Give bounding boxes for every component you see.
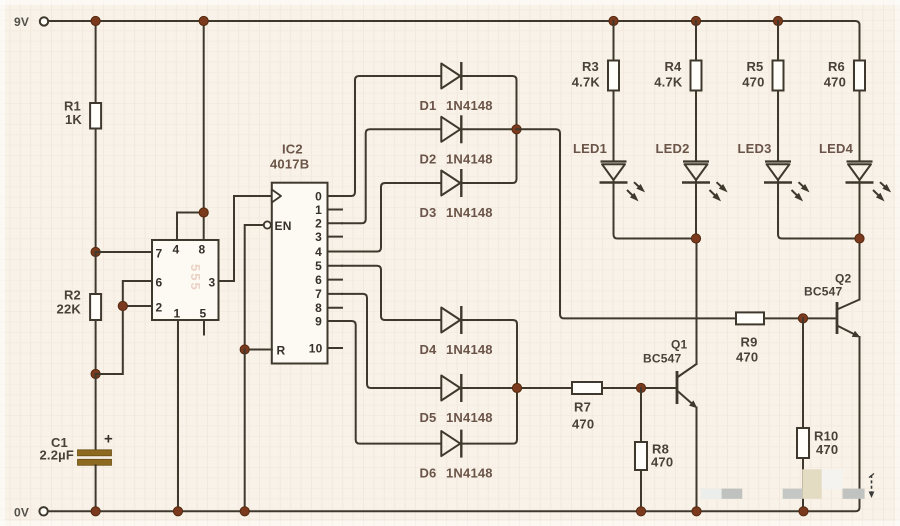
wire 555 pin 1 to 0V bbox=[177, 320, 179, 511]
svg-text:LED2: LED2 bbox=[655, 141, 689, 156]
svg-text:2: 2 bbox=[156, 301, 163, 315]
LED LED2 bbox=[682, 162, 728, 202]
svg-text:1N4148: 1N4148 bbox=[446, 466, 493, 481]
svg-text:IC2: IC2 bbox=[282, 142, 303, 157]
wire R9 to Q2 base bbox=[764, 317, 837, 319]
svg-text:470: 470 bbox=[736, 350, 758, 365]
wire R6 to LED4 bbox=[859, 91, 861, 162]
svg-text:R9: R9 bbox=[741, 335, 758, 350]
junction EN/R bbox=[240, 345, 249, 354]
wire output 0 to D1 bbox=[342, 76, 441, 196]
svg-text:4: 4 bbox=[315, 245, 322, 259]
junction 9V/R1 bbox=[91, 16, 100, 25]
wire Q2 emitter to 0V rail bbox=[859, 337, 861, 505]
wire R8 to 0V bbox=[640, 470, 642, 511]
wire node to 555 pin 2 bbox=[96, 306, 152, 374]
diode D4 bbox=[441, 306, 461, 334]
wire output 9 to D6 bbox=[342, 321, 441, 444]
transistor Q1 BC547 bbox=[677, 364, 697, 408]
wire R pin to node bbox=[245, 349, 272, 351]
diode D3 bbox=[441, 169, 461, 197]
wire R10 to 0V bbox=[802, 458, 804, 511]
resistor R2 bbox=[90, 294, 101, 320]
wire D4 cathode to node B bbox=[461, 320, 517, 388]
svg-text:470: 470 bbox=[651, 455, 673, 470]
svg-text:R3: R3 bbox=[582, 59, 599, 74]
op-amp U1 555 timer IC1 body bbox=[152, 240, 219, 320]
wire output 4 stub bbox=[328, 251, 343, 253]
junction pin1/0V bbox=[173, 507, 182, 516]
wire R4 to LED2 bbox=[695, 91, 697, 162]
wire 9V top rail bbox=[48, 21, 860, 61]
wire output 2 to D2 bbox=[342, 129, 441, 223]
svg-text:R6: R6 bbox=[828, 59, 845, 74]
junction R1/R2/pin7 bbox=[91, 247, 100, 256]
LED LED1 bbox=[600, 162, 646, 202]
svg-text:3: 3 bbox=[315, 230, 322, 244]
svg-text:LED4: LED4 bbox=[819, 141, 854, 156]
wire 555 pin 3 to 4017 clock bbox=[219, 196, 272, 281]
svg-text:R2: R2 bbox=[64, 288, 81, 303]
junction Q1e/0V bbox=[692, 507, 701, 516]
resistor R6 bbox=[854, 61, 865, 91]
svg-text:470: 470 bbox=[824, 75, 846, 90]
wire Q2 collector to LED node bbox=[859, 239, 861, 300]
svg-text:D2: D2 bbox=[419, 151, 436, 166]
svg-text:470: 470 bbox=[816, 442, 838, 457]
svg-text:LED1: LED1 bbox=[573, 141, 607, 156]
svg-text:9: 9 bbox=[315, 314, 322, 328]
wire R2 to node bbox=[95, 320, 97, 374]
junction EN-R/0V bbox=[240, 507, 249, 516]
svg-text:7: 7 bbox=[315, 287, 322, 301]
resistor R8 bbox=[635, 442, 647, 470]
svg-text:1N4148: 1N4148 bbox=[446, 98, 493, 113]
wire output 3 stub bbox=[328, 236, 343, 238]
wire output 5 to D4 bbox=[342, 266, 441, 320]
svg-text:D1: D1 bbox=[419, 98, 436, 113]
junction R8/0V bbox=[636, 507, 645, 516]
wire 0V bottom rail bbox=[48, 505, 860, 511]
wire LED2 to pair node bbox=[695, 183, 697, 239]
svg-text:R4: R4 bbox=[664, 59, 682, 74]
diode D5 bbox=[441, 374, 461, 402]
svg-text:470: 470 bbox=[572, 417, 594, 432]
watermark block group 2 bbox=[783, 469, 865, 499]
wire node to R10 bbox=[802, 318, 804, 428]
resistor R5 bbox=[773, 61, 784, 91]
junction pin2/pin6 bbox=[118, 301, 127, 310]
svg-text:0: 0 bbox=[315, 189, 322, 203]
svg-text:LED3: LED3 bbox=[737, 141, 771, 156]
wire D5 cathode to R7 bbox=[461, 387, 572, 389]
svg-text:R7: R7 bbox=[574, 400, 591, 415]
svg-text:Q1: Q1 bbox=[671, 338, 688, 352]
LED LED3 bbox=[764, 162, 810, 202]
svg-text:D4: D4 bbox=[419, 342, 437, 357]
wire 9V to R3 bbox=[613, 21, 615, 61]
svg-text:R5: R5 bbox=[746, 59, 763, 74]
junction C1/0V bbox=[91, 507, 100, 516]
wire node to R8 bbox=[640, 388, 642, 442]
wire output 7 to D5 bbox=[342, 294, 441, 388]
wire LED at x=778 down to pair node bbox=[778, 183, 857, 239]
svg-text:555: 555 bbox=[188, 264, 203, 292]
wire to 555 pin 7 bbox=[96, 251, 152, 253]
junction LED3/LED4 bbox=[855, 234, 864, 243]
junction 9V/555 supply bbox=[199, 16, 208, 25]
wire R7 to Q1 base bbox=[602, 387, 677, 389]
junction 9V/R4 bbox=[691, 16, 700, 25]
wire output 8 stub bbox=[328, 307, 343, 309]
clock input triangle of IC2 bbox=[272, 190, 281, 203]
wire R1 to node 555 pin7 bbox=[95, 129, 97, 253]
svg-text:6: 6 bbox=[315, 273, 322, 287]
svg-text:5: 5 bbox=[315, 259, 322, 273]
svg-text:0V: 0V bbox=[14, 506, 29, 520]
svg-text:D5: D5 bbox=[419, 410, 436, 425]
svg-text:3: 3 bbox=[209, 276, 216, 290]
wire EN to node bbox=[245, 225, 264, 350]
svg-text:D6: D6 bbox=[419, 466, 436, 481]
wire output 9 stub bbox=[328, 320, 343, 322]
dashed arrow mark bottom right bbox=[869, 474, 875, 499]
svg-text:7: 7 bbox=[156, 247, 163, 261]
svg-text:+: + bbox=[104, 431, 113, 448]
junction R9/R10/Q2 bbox=[798, 314, 807, 323]
wire D1 cathode to node A bbox=[461, 76, 516, 129]
wire D3 cathode to node A bbox=[461, 129, 516, 183]
svg-text:1: 1 bbox=[315, 203, 322, 217]
junction R7/R8/Q1 bbox=[636, 383, 645, 392]
watermark block group 1 bbox=[701, 489, 743, 499]
wire 555 pin 5 stub bbox=[203, 320, 205, 335]
resistor R3 bbox=[608, 61, 619, 91]
resistor R4 bbox=[691, 61, 702, 91]
wire node to R2 bbox=[95, 252, 97, 294]
resistor R1 bbox=[90, 103, 101, 129]
svg-text:1K: 1K bbox=[65, 112, 82, 127]
wire output 7 stub bbox=[328, 293, 343, 295]
svg-text:BC547: BC547 bbox=[804, 285, 842, 299]
svg-text:2.2µF: 2.2µF bbox=[39, 448, 74, 463]
wire output 0 stub bbox=[328, 195, 343, 197]
wire output 4 to D3 bbox=[342, 183, 441, 252]
enable bubble of IC2 bbox=[264, 221, 271, 228]
wire R5 to LED3 bbox=[777, 91, 779, 162]
wire EN-R node to 0V bbox=[244, 350, 246, 512]
svg-text:470: 470 bbox=[742, 75, 764, 90]
wire node A to R9 bbox=[517, 129, 737, 318]
wire output 5 stub bbox=[328, 265, 343, 267]
diode D1 bbox=[441, 62, 461, 90]
svg-text:1N4148: 1N4148 bbox=[446, 342, 493, 357]
svg-text:4017B: 4017B bbox=[270, 157, 309, 172]
wire LED4 to pair node bbox=[859, 183, 861, 239]
resistor R7 bbox=[572, 382, 602, 394]
wire 9V to R5 bbox=[777, 21, 779, 61]
svg-text:D3: D3 bbox=[419, 205, 436, 220]
svg-text:22K: 22K bbox=[57, 302, 82, 317]
node A junction D1-D3 bbox=[512, 125, 521, 134]
wire C1 to 0V bbox=[95, 465, 97, 511]
svg-text:8: 8 bbox=[199, 243, 206, 257]
wire LED at x=613.5 down to pair node bbox=[614, 183, 693, 239]
node B junction D4-D6 bbox=[512, 383, 521, 392]
resistor R9 bbox=[736, 312, 764, 324]
svg-text:EN: EN bbox=[275, 219, 292, 233]
svg-text:1N4148: 1N4148 bbox=[446, 205, 493, 220]
terminal 0V bbox=[39, 507, 47, 515]
svg-text:4.7K: 4.7K bbox=[654, 75, 683, 90]
IC U2 4017B body bbox=[272, 183, 328, 364]
wire output 2 stub bbox=[328, 222, 343, 224]
wire D2 cathode to node A bbox=[461, 128, 516, 130]
wire Q1 collector to LED node bbox=[696, 239, 698, 365]
svg-text:1: 1 bbox=[174, 307, 181, 321]
wire 9V to R1 bbox=[95, 21, 97, 103]
diode D2 bbox=[441, 115, 461, 143]
wire 9V to R4 bbox=[695, 21, 697, 61]
wire R3 to LED1 bbox=[613, 91, 615, 162]
junction R10/0V bbox=[799, 507, 808, 516]
svg-text:2: 2 bbox=[315, 217, 322, 231]
junction R2/C1/pin2-6 bbox=[91, 369, 100, 378]
wire node to C1 bbox=[95, 374, 97, 450]
svg-text:10: 10 bbox=[309, 341, 323, 355]
junction 9V/R3 bbox=[609, 16, 618, 25]
junction 9V/R5 bbox=[773, 16, 782, 25]
svg-text:4: 4 bbox=[173, 243, 180, 257]
wire output 1 stub bbox=[328, 209, 343, 211]
svg-text:Q2: Q2 bbox=[835, 272, 852, 286]
svg-text:R: R bbox=[277, 344, 286, 358]
wire D6 cathode to node B bbox=[461, 388, 517, 444]
svg-text:6: 6 bbox=[156, 276, 163, 290]
diode D6 bbox=[441, 430, 461, 458]
transistor Q2 BC547 bbox=[837, 300, 861, 338]
LED LED4 bbox=[846, 162, 892, 202]
svg-text:4.7K: 4.7K bbox=[572, 75, 601, 90]
svg-text:BC547: BC547 bbox=[643, 352, 681, 366]
terminal 9V bbox=[40, 17, 48, 25]
wire 555 pin 4 to pin 8 bbox=[177, 213, 204, 241]
svg-text:1N4148: 1N4148 bbox=[446, 151, 493, 166]
junction pin4/pin8 bbox=[199, 208, 208, 217]
wire 555 pin 6 tie bbox=[123, 281, 152, 306]
capacitor C1 bbox=[78, 450, 112, 466]
wire pin 10 stub bbox=[328, 347, 343, 349]
resistor R10 bbox=[797, 428, 809, 458]
wire output 6 stub bbox=[328, 279, 343, 281]
svg-text:5: 5 bbox=[200, 307, 207, 321]
svg-text:1N4148: 1N4148 bbox=[446, 410, 493, 425]
wire Q1 emitter to 0V bbox=[696, 408, 698, 512]
wire 9V to 555 pin 8 bbox=[203, 21, 205, 240]
junction LED1/LED2 bbox=[691, 234, 700, 243]
svg-text:9V: 9V bbox=[14, 15, 29, 29]
svg-text:8: 8 bbox=[315, 301, 322, 315]
